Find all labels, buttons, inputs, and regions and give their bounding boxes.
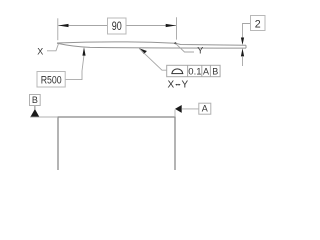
R500 arrowhead [82,47,85,55]
arrowhead right of 90 dim [166,24,176,27]
svg-text:Y: Y [181,80,188,91]
point Y marker dot [174,42,176,44]
extension line above right edge for datum A [174,110,176,118]
R500 box [37,72,65,88]
feature control frame leader arrowhead [139,48,147,54]
datum B box [30,95,41,106]
datum B stem [34,106,36,110]
datum A box [199,103,211,114]
feature control frame [167,65,220,76]
datum A stem [182,108,199,110]
svg-text:A: A [202,104,208,114]
svg-text:R500: R500 [41,75,62,87]
svg-text:B: B [212,66,218,76]
dimension box 2 [251,16,266,31]
svg-text:X: X [167,80,174,91]
arrowhead left of 90 dim [58,24,68,27]
label X leader [47,44,59,51]
part right end face [245,45,247,48]
dimension 2 down arrowhead [241,38,244,46]
part top surface taper Y to right end [175,43,246,45]
dimension 2 lower shaft [242,56,244,66]
bottom view rectangle (plan view of part) [58,117,175,177]
part bottom surface [57,43,246,48]
label Y leader [176,43,195,52]
svg-text:Y: Y [197,46,203,56]
svg-text:B: B [32,95,38,105]
extension line left (X point) for 90 dim [57,18,59,40]
svg-text:90: 90 [112,21,122,33]
datum B feature triangle [31,109,40,117]
datum A feature triangle [175,105,182,113]
between symbol double arrow [175,84,180,86]
part top surface (R500 arc X to Y) [57,42,175,43]
extension of top edge to datum B [30,116,58,118]
feature control frame leader [140,49,167,70]
svg-text:0.1: 0.1 [188,66,201,77]
svg-text:X: X [37,47,43,57]
dimension 2 leader from box [243,24,251,38]
R500 leader [65,55,84,80]
svg-text:A: A [203,66,209,76]
svg-text:2: 2 [255,19,261,31]
dimension 2 up arrowhead [241,48,244,56]
extension line right (Y point) for 90 dim [176,17,178,39]
profile of a surface symbol [171,69,183,74]
dimension line 90 [58,25,176,27]
dimension box 90 [108,18,127,34]
